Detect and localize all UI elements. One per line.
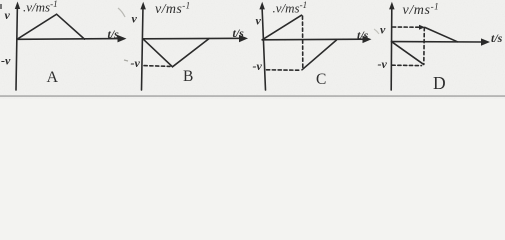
- graph D small arrowhead on +v dashed line: [419, 25, 425, 30]
- svg-text:-v: -v: [1, 54, 11, 68]
- graph C x-axis arrowhead: [363, 36, 372, 43]
- svg-text:t/s: t/s: [491, 31, 503, 45]
- graph D x-axis: [392, 41, 485, 43]
- svg-text:-v: -v: [131, 56, 141, 70]
- graph C y-axis: [262, 6, 266, 91]
- svg-text:A: A: [47, 69, 59, 86]
- graph C dashed -v level line: [267, 69, 300, 71]
- graph B x-axis arrowhead: [239, 35, 248, 42]
- svg-text:D: D: [433, 73, 446, 93]
- graph A y-axis arrowhead: [15, 2, 20, 10]
- graph D x-axis arrowhead: [481, 38, 490, 45]
- svg-text:-v: -v: [378, 57, 388, 71]
- graph A x-axis: [17, 38, 121, 41]
- svg-text:t/s: t/s: [108, 27, 120, 41]
- graph D descending segment from origin: [392, 42, 424, 65]
- graph D y-axis: [390, 6, 393, 91]
- graph C x-axis: [262, 38, 366, 41]
- graph D descending segment from +v: [425, 27, 458, 41]
- left edge speck: [0, 4, 2, 9]
- graph C rising segment 2: [302, 40, 337, 70]
- graph C rising segment 1: [262, 15, 301, 40]
- graph A triangle curve: [17, 14, 85, 39]
- graph B dashed -v level line: [144, 65, 170, 68]
- graph A x-axis arrowhead: [118, 35, 127, 42]
- graph B V curve: [143, 39, 209, 67]
- faint scan smudge near A axis end: [118, 8, 125, 17]
- graph D dashed vertical at t1: [423, 28, 426, 65]
- svg-text:-v: -v: [253, 59, 263, 73]
- graph A y-axis: [16, 5, 17, 90]
- graph D y-axis arrowhead: [389, 2, 395, 10]
- graph B y-axis: [142, 6, 144, 91]
- bottom rule line: [0, 95, 505, 96]
- graph D dashed -v level line: [392, 64, 422, 66]
- svg-text:v: v: [5, 8, 11, 22]
- faint scan smudge lower right of A: [124, 60, 128, 61]
- graph C dashed vertical at t1: [302, 16, 304, 70]
- graph C y-axis arrowhead: [259, 2, 265, 10]
- svg-text:v: v: [132, 12, 138, 26]
- svg-text:t/s: t/s: [357, 28, 369, 42]
- svg-text:B: B: [183, 68, 193, 85]
- faint scan smudge right of C t/s: [374, 29, 379, 34]
- svg-text:v: v: [256, 14, 262, 28]
- svg-text:v: v: [380, 23, 386, 37]
- scan grain overlay: [0, 0, 505, 99]
- svg-text:C: C: [316, 71, 326, 88]
- svg-text:t/s: t/s: [233, 26, 245, 40]
- graph B y-axis arrowhead: [140, 2, 146, 10]
- graph B x-axis: [143, 37, 243, 40]
- graph D dashed +v level line: [393, 26, 419, 28]
